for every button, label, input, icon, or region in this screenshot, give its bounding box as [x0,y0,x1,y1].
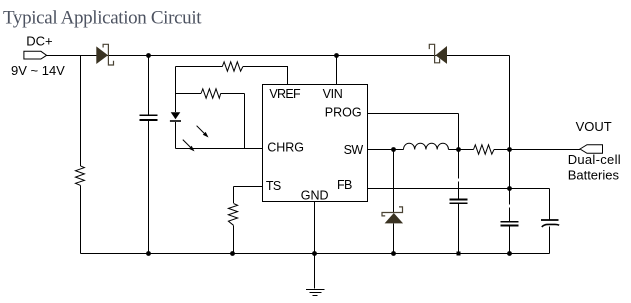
resistor R1 (opto top) [222,62,243,71]
svg-text:PROG: PROG [325,105,362,119]
node bottom C3 [507,251,512,256]
wire CHRG [176,148,263,150]
wire PROG horizontal [368,113,459,115]
wire opto loop top right [243,66,288,68]
wire D3 branch lower [393,224,395,254]
ground [306,290,325,296]
node bottom TS [230,251,235,256]
capacitor C1 [140,115,158,120]
wire VREF stub [287,67,289,85]
resistor R5 (output) [474,145,495,154]
wire GND vertical [314,202,316,289]
resistor R2 (opto mid) [201,89,221,98]
wire C2 branch upper [458,150,460,179]
inductor L1 [404,143,449,149]
LED (opto) [171,112,181,119]
wire SW mid [449,149,474,151]
wire bottom main [81,253,550,255]
svg-text:GND: GND [301,188,329,202]
wire left rail upper [80,56,82,167]
node top C1 [146,53,151,58]
diode D1 (Schottky, input) [96,46,108,64]
svg-text:VREF: VREF [269,87,301,101]
svg-text:Typical Application Circuit: Typical Application Circuit [3,7,202,28]
wire C4 vertical upper [549,189,551,220]
svg-text:9V ~ 14V: 9V ~ 14V [11,63,65,78]
capacitor C4 (polarized) [541,219,559,221]
svg-text:VOUT: VOUT [576,119,612,134]
svg-text:FB: FB [337,178,352,192]
svg-text:Dual-cell: Dual-cell [568,152,621,167]
svg-text:CHRG: CHRG [267,140,304,154]
LED arrow 1 [197,126,207,136]
wire C2 branch lower [458,204,460,254]
wire TS vertical upper [233,187,235,204]
node top VIN [334,53,339,58]
wire SW lead [368,149,404,151]
wire C2 branch mid [458,182,460,199]
wire opto loop left upper [175,67,177,113]
wire TS vertical lower [233,226,235,254]
wire opto loop top left [176,66,223,68]
resistor R4 (TS) [228,204,237,226]
node bottom C1 [146,251,151,256]
wire right corner vertical lower [509,226,511,254]
wire PROG vertical [458,114,460,150]
wire R2 left lead [176,93,202,95]
node FB corner [507,186,512,191]
connector VOUT [580,145,603,154]
svg-text:SW: SW [344,143,364,157]
wire opto loop left lower [175,122,177,149]
wire FB [368,188,550,190]
svg-text:VIN: VIN [323,87,343,101]
wire VOUT [494,149,580,151]
LED arrow 2 [183,140,193,150]
svg-text:TS: TS [266,179,281,193]
wire TS horizontal [234,186,263,188]
diode D2 (Schottky, top right) [436,46,448,64]
wire R2 vertical [244,94,246,149]
node SW-C2 [456,147,461,152]
wire R2 right lead [221,93,245,95]
wire right corner vertical mid [509,208,511,222]
IC U1 body [263,85,368,202]
capacitor C3 [501,222,519,226]
node VOUT corner [507,147,512,152]
wire C1 branch upper [148,56,150,115]
node SW-D3 [391,147,396,152]
wire left rail lower [80,185,82,253]
node bottom GND [312,251,317,256]
wire VIN stub [336,56,338,85]
svg-text:DC+: DC+ [26,34,52,49]
wire C4 vertical lower [549,227,551,254]
capacitor C2 [450,200,468,204]
wire right corner vertical upper [509,56,511,205]
node bottom C2 [457,252,461,256]
wire top main [47,55,510,57]
wire D3 branch upper [393,150,395,213]
connector DC+ [24,51,47,59]
svg-text:Batteries: Batteries [568,168,620,183]
node bottom D3 [391,251,396,256]
diode D3 (Schottky, catch) [385,213,404,223]
wire C1 branch lower [148,121,150,254]
resistor R3 (left rail) [76,166,85,186]
